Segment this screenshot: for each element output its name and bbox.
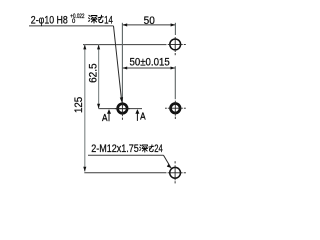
svg-text:125: 125 [73, 97, 85, 113]
svg-text:50: 50 [144, 15, 155, 27]
svg-text:2-M12x1.75: 2-M12x1.75 [91, 143, 139, 155]
svg-text:14: 14 [104, 14, 113, 26]
svg-text:62.5: 62.5 [88, 63, 100, 83]
svg-text:50±0.015: 50±0.015 [130, 57, 170, 69]
svg-text:2-φ10 H8: 2-φ10 H8 [31, 14, 68, 26]
svg-text:A: A [102, 113, 108, 124]
svg-text:A: A [140, 111, 146, 122]
svg-text:24: 24 [154, 143, 163, 155]
